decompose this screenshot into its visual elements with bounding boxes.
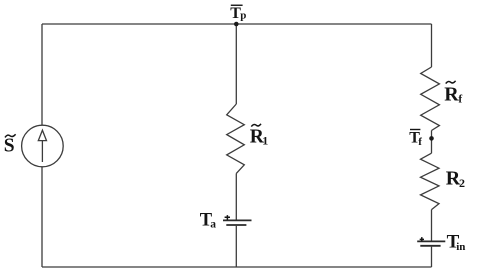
battery Ta bottom plate — [226, 224, 246, 226]
wire right upper — [431, 24, 433, 67]
svg-text:R: R — [444, 83, 459, 105]
wire R2 to Tin battery — [431, 210, 433, 242]
label node Tp — [230, 5, 246, 22]
battery Ta plus sign — [225, 215, 230, 220]
node Tp junction dot — [234, 22, 239, 27]
node Tf junction dot — [429, 136, 434, 141]
wire bottom — [42, 266, 432, 268]
resistor Rf zigzag — [421, 67, 440, 131]
battery Tin top plate — [417, 240, 445, 242]
svg-text:f: f — [458, 93, 462, 105]
wire top — [42, 23, 432, 25]
resistor R1 zigzag — [227, 104, 245, 173]
current source S1 circle — [22, 125, 64, 167]
svg-text:1: 1 — [262, 134, 268, 148]
wire left lower — [41, 167, 43, 267]
current source arrow shaft — [41, 140, 43, 162]
label S tilde source — [4, 134, 16, 156]
wire right middle — [431, 131, 433, 154]
svg-text:in: in — [456, 241, 465, 253]
label node Tf — [409, 129, 422, 148]
battery Tin plus sign — [420, 237, 424, 241]
battery Tin bottom plate — [420, 245, 440, 247]
resistor R2 zigzag — [421, 153, 440, 209]
wire Ta to bottom — [235, 225, 237, 267]
battery Ta top plate — [223, 219, 252, 221]
current source arrow head — [38, 130, 46, 140]
svg-text:p: p — [240, 9, 246, 21]
svg-text:S: S — [4, 135, 15, 156]
label battery Ta — [200, 210, 216, 230]
label resistor R2 — [446, 167, 465, 190]
label resistor Rf — [444, 81, 462, 106]
svg-text:2: 2 — [459, 176, 465, 190]
label resistor R1 — [250, 124, 268, 148]
wire R1 to Ta battery — [235, 173, 237, 220]
wire left upper — [41, 24, 43, 125]
svg-text:f: f — [418, 136, 422, 148]
wire Tin to bottom — [431, 246, 433, 267]
svg-text:a: a — [210, 218, 216, 230]
label battery Tin — [447, 232, 466, 253]
wire middle upper — [235, 24, 237, 104]
